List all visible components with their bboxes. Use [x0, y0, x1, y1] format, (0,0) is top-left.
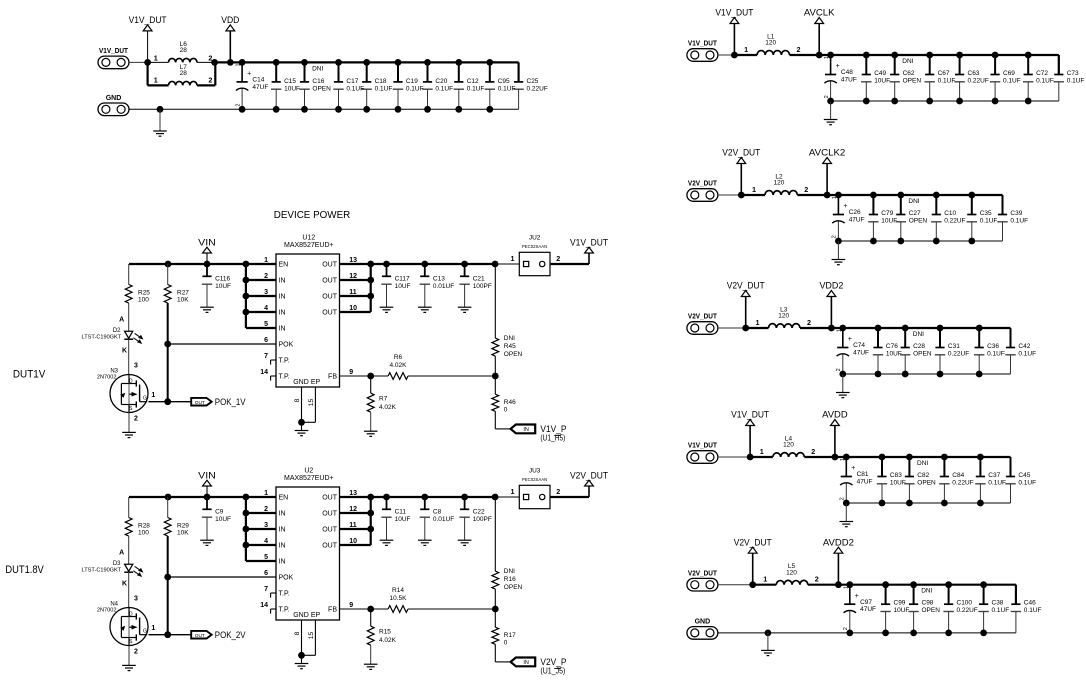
- svg-text:100: 100: [138, 296, 149, 303]
- svg-text:EP: EP: [311, 612, 321, 619]
- svg-text:K: K: [122, 348, 127, 355]
- svg-text:C63: C63: [968, 70, 980, 77]
- svg-text:IN: IN: [279, 558, 286, 565]
- svg-text:C20: C20: [435, 78, 447, 85]
- svg-text:DNI: DNI: [908, 198, 919, 205]
- svg-text:V2V_DUT: V2V_DUT: [722, 148, 760, 158]
- svg-text:0.22UF: 0.22UF: [957, 607, 978, 614]
- svg-text:V2V_DUT: V2V_DUT: [688, 181, 718, 188]
- svg-text:7: 7: [264, 353, 268, 360]
- svg-text:OPEN: OPEN: [903, 77, 922, 84]
- svg-text:10K: 10K: [177, 296, 189, 303]
- svg-text:120: 120: [786, 569, 797, 576]
- svg-text:14: 14: [260, 369, 268, 376]
- svg-text:+: +: [855, 593, 859, 600]
- svg-text:2: 2: [815, 575, 819, 584]
- svg-text:OPEN: OPEN: [504, 351, 523, 358]
- svg-text:C17: C17: [346, 78, 358, 85]
- svg-text:T.P.: T.P.: [279, 606, 290, 613]
- svg-text:DUT1V: DUT1V: [13, 369, 46, 381]
- svg-text:0.1UF: 0.1UF: [988, 479, 1006, 486]
- svg-text:EN: EN: [279, 494, 289, 501]
- svg-text:OUT: OUT: [322, 526, 338, 533]
- svg-text:2: 2: [235, 104, 241, 107]
- svg-text:2: 2: [811, 447, 815, 456]
- svg-text:T.P.: T.P.: [279, 373, 290, 380]
- svg-text:A: A: [119, 550, 124, 557]
- svg-text:0.1UF: 0.1UF: [980, 217, 998, 224]
- svg-text:0.22UF: 0.22UF: [527, 86, 548, 93]
- svg-text:1: 1: [756, 318, 760, 327]
- svg-text:C98: C98: [922, 600, 934, 607]
- svg-text:C39: C39: [1010, 210, 1022, 217]
- svg-text:C117: C117: [395, 276, 410, 283]
- svg-text:OUT: OUT: [322, 293, 338, 300]
- svg-text:C42: C42: [1018, 343, 1030, 350]
- svg-text:JU3: JU3: [529, 468, 541, 475]
- svg-text:0.1UF: 0.1UF: [1036, 77, 1054, 84]
- svg-text:FB: FB: [328, 606, 337, 613]
- svg-text:C14: C14: [252, 77, 264, 84]
- svg-text:T.P.: T.P.: [279, 590, 290, 597]
- svg-text:V2V_DUT: V2V_DUT: [688, 314, 718, 321]
- svg-text:2N7002: 2N7002: [97, 375, 117, 381]
- svg-text:D: D: [129, 611, 133, 617]
- svg-text:EP: EP: [311, 379, 321, 386]
- svg-text:OUT: OUT: [195, 400, 205, 406]
- svg-text:+: +: [848, 336, 852, 343]
- svg-text:2: 2: [832, 235, 838, 238]
- svg-text:2: 2: [807, 318, 811, 327]
- svg-text:C45: C45: [1018, 472, 1030, 479]
- svg-text:3: 3: [134, 362, 138, 369]
- svg-text:10.5K: 10.5K: [390, 595, 408, 602]
- svg-text:10UF: 10UF: [881, 217, 897, 224]
- svg-text:2: 2: [797, 45, 801, 54]
- svg-text:IN: IN: [279, 542, 286, 549]
- svg-text:C46: C46: [1024, 600, 1036, 607]
- svg-text:IN: IN: [523, 427, 529, 433]
- svg-text:OUT: OUT: [322, 510, 338, 517]
- svg-text:C97: C97: [860, 599, 872, 606]
- svg-text:C35: C35: [980, 210, 992, 217]
- svg-text:C116: C116: [215, 276, 230, 283]
- svg-text:C83: C83: [890, 472, 902, 479]
- svg-text:1: 1: [511, 487, 515, 496]
- svg-text:C73: C73: [1067, 70, 1079, 77]
- svg-text:2: 2: [836, 368, 842, 371]
- svg-text:OUT: OUT: [195, 633, 205, 639]
- svg-text:1: 1: [843, 586, 849, 589]
- svg-text:OUT: OUT: [322, 277, 338, 284]
- svg-text:1: 1: [836, 329, 842, 332]
- svg-text:0.1UF: 0.1UF: [375, 86, 393, 93]
- svg-text:V1V_DUT: V1V_DUT: [731, 410, 769, 420]
- svg-text:DEVICE POWER: DEVICE POWER: [274, 209, 351, 221]
- svg-text:LTST-C190GKT: LTST-C190GKT: [82, 335, 122, 341]
- svg-text:C12: C12: [467, 78, 479, 85]
- svg-text:47UF: 47UF: [857, 479, 873, 486]
- svg-text:0.1UF: 0.1UF: [987, 350, 1005, 357]
- svg-text:C100: C100: [957, 600, 973, 607]
- svg-text:10UF: 10UF: [886, 350, 902, 357]
- svg-text:OPEN: OPEN: [922, 607, 941, 614]
- svg-text:C9: C9: [215, 509, 224, 516]
- svg-text:0.1UF: 0.1UF: [1010, 217, 1028, 224]
- svg-text:15: 15: [308, 632, 315, 640]
- svg-text:1: 1: [154, 53, 158, 62]
- svg-text:0.1UF: 0.1UF: [992, 607, 1010, 614]
- svg-text:R45: R45: [504, 343, 516, 350]
- svg-text:DNI: DNI: [913, 331, 924, 338]
- svg-text:7: 7: [264, 586, 268, 593]
- svg-text:120: 120: [783, 442, 794, 449]
- svg-text:2: 2: [134, 416, 138, 423]
- svg-text:+: +: [843, 203, 847, 210]
- svg-text:+: +: [836, 63, 840, 70]
- svg-text:N3: N3: [110, 368, 118, 374]
- svg-text:1: 1: [511, 254, 515, 263]
- svg-text:D3: D3: [113, 561, 121, 567]
- svg-text:LTST-C190GKT: LTST-C190GKT: [82, 568, 122, 574]
- svg-text:47UF: 47UF: [252, 84, 268, 91]
- svg-text:1: 1: [151, 625, 155, 632]
- svg-text:C48: C48: [841, 69, 853, 76]
- svg-text:C18: C18: [375, 78, 387, 85]
- svg-text:C26: C26: [849, 209, 861, 216]
- svg-text:1: 1: [832, 196, 838, 199]
- svg-text:(U1_J5): (U1_J5): [540, 666, 565, 676]
- svg-text:C99: C99: [894, 600, 906, 607]
- svg-text:10UF: 10UF: [215, 283, 231, 290]
- svg-text:U2: U2: [304, 468, 313, 475]
- svg-text:C22: C22: [473, 509, 485, 516]
- svg-text:0.01UF: 0.01UF: [433, 516, 454, 523]
- svg-text:T.P.: T.P.: [279, 357, 290, 364]
- svg-text:DNI: DNI: [917, 460, 928, 467]
- svg-text:2: 2: [843, 627, 849, 630]
- svg-text:OPEN: OPEN: [909, 217, 928, 224]
- svg-text:0.1UF: 0.1UF: [346, 86, 364, 93]
- svg-text:1: 1: [744, 45, 748, 54]
- svg-text:DNI: DNI: [504, 568, 515, 575]
- svg-text:GND: GND: [106, 95, 122, 102]
- svg-text:OUT: OUT: [322, 261, 338, 268]
- svg-text:C72: C72: [1036, 70, 1048, 77]
- svg-text:AVDD: AVDD: [822, 410, 848, 420]
- svg-text:C49: C49: [874, 70, 886, 77]
- svg-text:47UF: 47UF: [841, 77, 857, 84]
- svg-text:C79: C79: [881, 210, 893, 217]
- svg-text:120: 120: [774, 180, 785, 187]
- svg-text:28: 28: [180, 70, 188, 77]
- svg-text:1: 1: [824, 56, 830, 59]
- svg-text:10UF: 10UF: [874, 77, 890, 84]
- svg-text:2N7002: 2N7002: [97, 608, 117, 614]
- svg-text:EN: EN: [279, 261, 289, 268]
- svg-text:1: 1: [151, 392, 155, 399]
- svg-text:GND: GND: [293, 612, 309, 619]
- svg-text:VIN: VIN: [198, 237, 216, 247]
- svg-text:DNI: DNI: [504, 335, 515, 342]
- svg-text:R16: R16: [504, 576, 516, 583]
- svg-text:V1V_DUT: V1V_DUT: [570, 237, 608, 247]
- svg-text:8: 8: [294, 631, 301, 635]
- svg-text:POK: POK: [279, 574, 294, 581]
- svg-text:OPEN: OPEN: [913, 350, 932, 357]
- svg-text:V2V_DUT: V2V_DUT: [727, 281, 765, 291]
- svg-text:VDD: VDD: [221, 15, 239, 25]
- svg-text:IN: IN: [279, 526, 286, 533]
- svg-text:2: 2: [556, 254, 560, 263]
- svg-text:28: 28: [180, 47, 188, 54]
- svg-text:C95: C95: [498, 78, 510, 85]
- svg-text:15: 15: [308, 399, 315, 407]
- svg-text:V1V_DUT: V1V_DUT: [99, 48, 129, 55]
- svg-text:C28: C28: [913, 343, 925, 350]
- svg-text:C19: C19: [406, 78, 418, 85]
- svg-text:100PF: 100PF: [473, 283, 492, 290]
- svg-text:10UF: 10UF: [890, 479, 906, 486]
- svg-text:PEC02SAAN: PEC02SAAN: [522, 244, 547, 249]
- svg-text:V2V_DUT: V2V_DUT: [688, 570, 718, 577]
- svg-text:9: 9: [349, 602, 353, 609]
- svg-text:G: G: [143, 395, 147, 401]
- svg-text:MAX8527EUD+: MAX8527EUD+: [284, 475, 334, 482]
- svg-text:0.1UF: 0.1UF: [1003, 77, 1021, 84]
- svg-text:0.1UF: 0.1UF: [498, 86, 516, 93]
- svg-text:AVCLK: AVCLK: [804, 8, 835, 18]
- svg-text:A: A: [119, 317, 124, 324]
- svg-text:R7: R7: [379, 396, 388, 403]
- svg-text:6: 6: [264, 570, 268, 577]
- svg-text:0.1UF: 0.1UF: [435, 86, 453, 93]
- svg-text:2: 2: [824, 95, 830, 98]
- svg-text:FB: FB: [328, 373, 337, 380]
- svg-text:C10: C10: [944, 210, 956, 217]
- svg-text:C38: C38: [992, 600, 1004, 607]
- svg-text:4.02K: 4.02K: [379, 637, 397, 644]
- svg-text:G: G: [143, 628, 147, 634]
- svg-text:0: 0: [504, 407, 508, 414]
- svg-text:120: 120: [765, 40, 776, 47]
- svg-text:4.02K: 4.02K: [379, 404, 397, 411]
- svg-text:IN: IN: [279, 309, 286, 316]
- svg-text:(U1_H5): (U1_H5): [540, 433, 565, 443]
- svg-text:IN: IN: [279, 510, 286, 517]
- svg-text:47UF: 47UF: [853, 350, 869, 357]
- svg-text:10UF: 10UF: [215, 516, 231, 523]
- svg-text:+: +: [247, 71, 251, 78]
- svg-text:+: +: [851, 465, 855, 472]
- svg-text:C15: C15: [284, 78, 296, 85]
- svg-text:0.1UF: 0.1UF: [1018, 479, 1036, 486]
- svg-text:OPEN: OPEN: [504, 584, 523, 591]
- svg-text:PEC02SAAN: PEC02SAAN: [522, 477, 547, 482]
- svg-text:2: 2: [804, 185, 808, 194]
- svg-text:10UF: 10UF: [395, 283, 411, 290]
- svg-text:C16: C16: [312, 78, 324, 85]
- svg-text:C11: C11: [395, 509, 407, 516]
- svg-text:0.1UF: 0.1UF: [1024, 607, 1042, 614]
- svg-text:OPEN: OPEN: [917, 479, 936, 486]
- svg-text:R14: R14: [392, 587, 404, 594]
- svg-text:10UF: 10UF: [284, 86, 300, 93]
- svg-text:10UF: 10UF: [894, 607, 910, 614]
- svg-text:R17: R17: [504, 632, 516, 639]
- svg-text:V1V_DUT: V1V_DUT: [688, 41, 718, 48]
- svg-text:POK: POK: [279, 341, 294, 348]
- svg-text:C25: C25: [527, 78, 539, 85]
- svg-text:0.22UF: 0.22UF: [968, 77, 989, 84]
- svg-text:OPEN: OPEN: [312, 86, 331, 93]
- svg-text:C21: C21: [473, 276, 485, 283]
- svg-text:C82: C82: [917, 472, 929, 479]
- svg-text:GND: GND: [293, 379, 309, 386]
- svg-text:R6: R6: [394, 354, 403, 361]
- svg-text:1: 1: [236, 63, 242, 66]
- svg-text:0.22UF: 0.22UF: [948, 350, 969, 357]
- svg-text:0.1UF: 0.1UF: [1067, 77, 1085, 84]
- svg-text:0.1UF: 0.1UF: [1018, 350, 1036, 357]
- svg-text:V1V_DUT: V1V_DUT: [715, 8, 753, 18]
- svg-text:2: 2: [208, 53, 212, 62]
- svg-text:R46: R46: [504, 399, 516, 406]
- svg-text:C13: C13: [433, 276, 445, 283]
- svg-text:C27: C27: [909, 210, 921, 217]
- svg-text:47UF: 47UF: [860, 606, 876, 613]
- svg-text:C8: C8: [433, 509, 442, 516]
- svg-text:VDD2: VDD2: [819, 281, 843, 291]
- svg-text:C81: C81: [857, 471, 869, 478]
- svg-text:47UF: 47UF: [849, 217, 865, 224]
- svg-text:R15: R15: [379, 629, 391, 636]
- svg-text:C31: C31: [948, 343, 960, 350]
- svg-text:N4: N4: [110, 601, 118, 607]
- svg-text:14: 14: [260, 602, 268, 609]
- svg-text:V1V_DUT: V1V_DUT: [688, 443, 718, 450]
- svg-text:V2V_DUT: V2V_DUT: [570, 470, 608, 480]
- svg-text:1: 1: [763, 575, 767, 584]
- svg-text:V2V_DUT: V2V_DUT: [734, 537, 772, 547]
- svg-text:VIN: VIN: [198, 470, 216, 480]
- svg-text:DUT1.8V: DUT1.8V: [5, 564, 44, 576]
- svg-text:POK_2V: POK_2V: [215, 630, 246, 640]
- svg-text:DNI: DNI: [312, 65, 323, 72]
- svg-text:1: 1: [154, 76, 158, 85]
- svg-text:C62: C62: [903, 70, 915, 77]
- svg-text:2: 2: [208, 76, 212, 85]
- svg-text:K: K: [122, 581, 127, 588]
- svg-text:IN: IN: [523, 660, 529, 666]
- svg-text:0.1UF: 0.1UF: [406, 86, 424, 93]
- svg-text:8: 8: [294, 398, 301, 402]
- svg-text:10K: 10K: [177, 529, 189, 536]
- svg-text:C84: C84: [952, 472, 964, 479]
- svg-text:C37: C37: [988, 472, 1000, 479]
- svg-text:AVDD2: AVDD2: [823, 537, 854, 547]
- svg-text:2: 2: [840, 497, 846, 500]
- svg-text:0.22UF: 0.22UF: [944, 217, 965, 224]
- svg-text:0.1UF: 0.1UF: [938, 77, 956, 84]
- svg-text:100: 100: [138, 529, 149, 536]
- svg-text:6: 6: [264, 337, 268, 344]
- svg-text:10UF: 10UF: [395, 516, 411, 523]
- svg-text:4.02K: 4.02K: [390, 362, 408, 369]
- svg-text:OUT: OUT: [322, 494, 338, 501]
- svg-text:C67: C67: [938, 70, 950, 77]
- svg-text:C76: C76: [886, 343, 898, 350]
- svg-text:0: 0: [504, 640, 508, 647]
- svg-text:GND: GND: [695, 619, 711, 626]
- svg-text:D: D: [129, 378, 133, 384]
- svg-text:OUT: OUT: [322, 309, 338, 316]
- svg-text:3: 3: [134, 595, 138, 602]
- svg-text:DNI: DNI: [921, 588, 932, 595]
- svg-text:1: 1: [752, 185, 756, 194]
- svg-text:DNI: DNI: [902, 58, 913, 65]
- svg-text:C36: C36: [987, 343, 999, 350]
- svg-text:0.22UF: 0.22UF: [952, 479, 973, 486]
- svg-text:MAX8527EUD+: MAX8527EUD+: [284, 242, 334, 249]
- svg-text:OUT: OUT: [322, 542, 338, 549]
- svg-text:IN: IN: [279, 293, 286, 300]
- svg-text:0.01UF: 0.01UF: [433, 283, 454, 290]
- svg-text:IN: IN: [279, 325, 286, 332]
- svg-text:AVCLK2: AVCLK2: [809, 148, 845, 158]
- svg-text:2: 2: [556, 487, 560, 496]
- svg-text:D2: D2: [113, 328, 121, 334]
- svg-text:V1V_DUT: V1V_DUT: [129, 15, 167, 25]
- svg-text:1: 1: [840, 458, 846, 461]
- svg-text:0.1UF: 0.1UF: [467, 86, 485, 93]
- svg-text:9: 9: [349, 369, 353, 376]
- svg-text:C74: C74: [853, 342, 865, 349]
- svg-text:POK_1V: POK_1V: [215, 397, 246, 407]
- svg-text:JU2: JU2: [529, 235, 541, 242]
- svg-text:1: 1: [760, 447, 764, 456]
- svg-text:IN: IN: [279, 277, 286, 284]
- svg-text:C69: C69: [1003, 70, 1015, 77]
- svg-text:120: 120: [778, 313, 789, 320]
- svg-text:U12: U12: [302, 235, 315, 242]
- svg-text:100PF: 100PF: [473, 516, 492, 523]
- svg-text:2: 2: [134, 649, 138, 656]
